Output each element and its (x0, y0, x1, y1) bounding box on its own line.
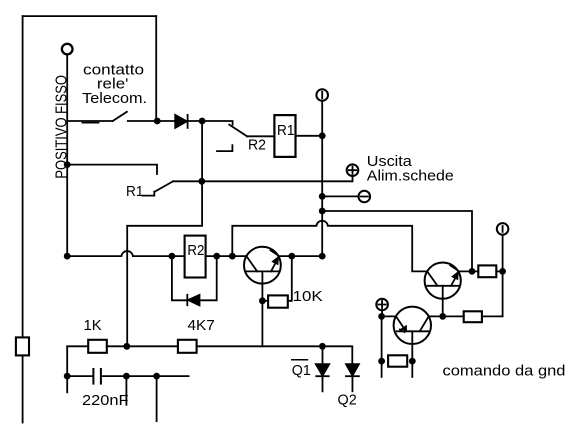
capacitor 220nF (67, 375, 92, 377)
junction cap right 2 (153, 373, 160, 380)
transistor Q3 (PNP) (394, 307, 431, 344)
terminal POSITIVO FISSO (62, 44, 73, 55)
svg-text:R1: R1 (126, 183, 144, 200)
wire coil R2 to Q1 transistor (206, 255, 247, 257)
svg-text:10K: 10K (293, 288, 323, 305)
wire top-left loop: left rail upper (22, 16, 24, 337)
switch R2 alternate contact hook (217, 145, 232, 151)
junction flyback right (213, 253, 220, 260)
svg-text:220nF: 220nF (82, 392, 129, 409)
diode D1 (175, 115, 187, 128)
junction R1 coil node (319, 132, 326, 139)
wire + node down (381, 316, 383, 377)
junction rail/x127 (123, 343, 130, 350)
wire Q1 base lead (261, 271, 263, 300)
junction resistor right (409, 358, 416, 365)
svg-text:Telecom.: Telecom. (82, 90, 147, 107)
wire top edge (23, 15, 157, 17)
wire blade to R1 coil (247, 135, 274, 137)
flyback diode loop (172, 256, 187, 300)
wire stub below x156 (156, 376, 158, 421)
resistor (right upper, unlabeled) (478, 265, 496, 277)
junction flyback left (169, 253, 176, 260)
wire negative rail to right (322, 211, 472, 271)
svg-text:Q2: Q2 (338, 392, 357, 409)
wire box2 to Q2a base / Q3 collector (429, 315, 464, 317)
junction emitter/bus (319, 253, 326, 260)
wire main positive bus vertical (321, 101, 323, 256)
switch R1 blade dash (143, 192, 155, 196)
junction minus branch (319, 193, 326, 200)
junction + terminal node (378, 313, 385, 320)
switch contact "contatto rele' Telecom." fixed side (67, 120, 113, 122)
transistor Q1 (NPN) (244, 247, 281, 284)
junction resistor left (378, 358, 385, 365)
switch contact dash (83, 122, 99, 124)
junction emitter/10K (288, 253, 295, 260)
wire Q3 base lead (411, 331, 413, 377)
relay coil R1 (274, 115, 295, 157)
wire base feed up and right (232, 221, 427, 272)
diode Q2 (346, 364, 359, 376)
junction cap right 1 (123, 373, 130, 380)
resistor 1K (88, 340, 107, 353)
svg-text:R2: R2 (248, 137, 266, 154)
junction POSITIVO corner (64, 253, 71, 260)
switch R1 fixed side (67, 165, 157, 174)
junction negative rail (319, 208, 326, 215)
resistor 10K (262, 300, 268, 302)
wire right edge of loop (155, 16, 157, 121)
svg-text:1K: 1K (84, 317, 102, 334)
terminal - Uscita (359, 191, 371, 203)
resistor (base-emitter, unlabeled) (388, 355, 407, 366)
switch R2 blade (229, 125, 247, 137)
wire I terminal down and around (482, 235, 503, 317)
wire rail left leg down (66, 346, 68, 392)
diode flyback (cathode left) (186, 295, 188, 305)
svg-text:POSITIVO FISSO: POSITIVO FISSO (54, 75, 71, 179)
junction base feed (229, 253, 236, 260)
junction (rect edge / switch) (154, 118, 161, 125)
svg-text:comando da gnd: comando da gnd (443, 363, 566, 380)
resistor 4K7 (178, 340, 197, 353)
wire node A vertical x=202 (127, 121, 202, 346)
junction I-terminal leg (499, 268, 506, 275)
junction POSITIVO / R1 switch (64, 161, 71, 168)
wire Q2a base lead (442, 286, 444, 317)
wire bottom rail y=346 (67, 345, 88, 347)
junction Q1 base / 10K (259, 297, 266, 304)
junction R1 switch node (198, 178, 205, 185)
wire Q1 base to rail (261, 301, 263, 347)
svg-text:Alim.schede: Alim.schede (367, 167, 454, 184)
wire minus branch (322, 195, 358, 197)
wire switch to diode (128, 120, 175, 122)
wire stub below x126 (125, 376, 127, 405)
wire diode cathode (188, 120, 203, 122)
svg-text:R1: R1 (277, 122, 295, 139)
transistor Q2a (NPN right) (425, 263, 461, 299)
wire main rail y=256 with hop (67, 251, 184, 256)
relay coil R2 (185, 236, 206, 278)
svg-text:R2: R2 (187, 242, 204, 259)
wire left rail lower (22, 355, 24, 422)
wire R1 coil to bus (296, 135, 323, 137)
junction Q2a base (439, 313, 446, 320)
svg-text:4K7: 4K7 (188, 317, 215, 334)
junction diode output node (199, 118, 206, 125)
switch R2 fixed side (202, 121, 233, 125)
wire POSITIVO vertical (66, 55, 68, 256)
junction capacitor left (64, 373, 71, 380)
wire Q1 emitter out (278, 255, 322, 257)
svg-text:Q1: Q1 (292, 362, 311, 379)
resistor (left rail, vertical, unlabeled) (16, 337, 29, 355)
junction emitter/negrail (469, 268, 476, 275)
diode Q1bar (316, 364, 329, 376)
wire R1 switch to plus terminal (173, 176, 353, 181)
terminal + (comando) (376, 299, 388, 311)
terminal I (top) (316, 89, 328, 101)
junction rail/Q1 diode (319, 343, 326, 350)
terminal + Uscita (347, 164, 359, 176)
terminal I (right) (497, 223, 509, 235)
wire Q3 emitter in (382, 315, 396, 317)
switch blade (113, 112, 127, 121)
resistor (right lower, unlabeled) (464, 311, 482, 322)
wire Q2a emitter out (458, 270, 478, 272)
switch R1 blade (154, 181, 173, 192)
